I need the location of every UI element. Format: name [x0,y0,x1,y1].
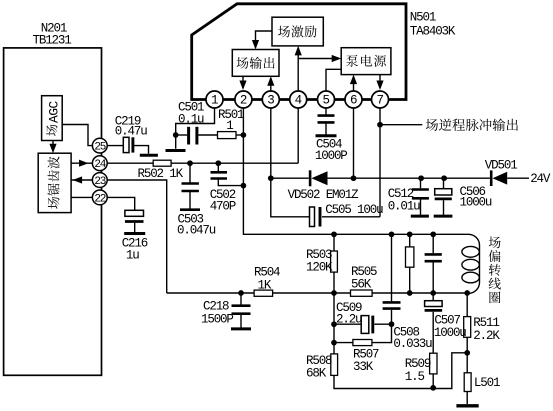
svg-text:VD502 EM01Z: VD502 EM01Z [288,188,360,202]
svg-text:0.1u: 0.1u [178,112,204,126]
svg-text:N501: N501 [410,10,436,24]
svg-text:33K: 33K [353,360,374,374]
svg-text:24V: 24V [530,172,551,186]
svg-text:C218: C218 [203,299,229,313]
svg-text:7: 7 [376,94,384,108]
svg-text:1000u: 1000u [434,326,466,340]
svg-text:0.033u: 0.033u [393,337,432,351]
svg-text:25: 25 [94,142,105,154]
svg-text:2.2u: 2.2u [336,312,362,326]
svg-text:0.01u: 0.01u [388,200,420,214]
svg-text:1u: 1u [126,248,139,262]
svg-text:L501: L501 [474,376,500,390]
svg-text:R502 1K: R502 1K [138,167,184,181]
svg-text:24: 24 [94,159,106,171]
svg-text:VD501: VD501 [485,159,517,173]
svg-text:6: 6 [350,94,358,108]
svg-text:1000P: 1000P [315,149,347,163]
svg-text:0.47u: 0.47u [115,124,147,138]
svg-text:R504: R504 [254,265,280,279]
svg-text:5: 5 [322,94,330,108]
svg-text:56K: 56K [351,277,372,291]
svg-text:AGC: AGC [46,101,61,123]
svg-text:23: 23 [94,176,105,188]
svg-text:1000u: 1000u [460,195,492,209]
svg-text:TB1231: TB1231 [33,33,72,47]
svg-text:R511: R511 [473,316,499,330]
svg-text:4: 4 [295,94,303,108]
svg-text:C505 100u: C505 100u [325,203,383,217]
svg-text:2: 2 [240,94,248,108]
svg-text:68K: 68K [306,366,327,380]
svg-text:1500P: 1500P [201,312,233,326]
svg-text:120K: 120K [306,260,333,274]
svg-text:0.047u: 0.047u [177,223,216,237]
svg-text:1.5: 1.5 [405,370,425,384]
svg-text:1: 1 [211,94,219,108]
svg-text:1: 1 [226,119,233,133]
svg-text:1K: 1K [258,278,272,292]
svg-text:2.2K: 2.2K [473,329,500,343]
svg-text:TA8403K: TA8403K [410,25,456,39]
svg-text:22: 22 [94,193,105,205]
svg-text:470P: 470P [210,199,236,213]
svg-text:3: 3 [267,94,275,108]
